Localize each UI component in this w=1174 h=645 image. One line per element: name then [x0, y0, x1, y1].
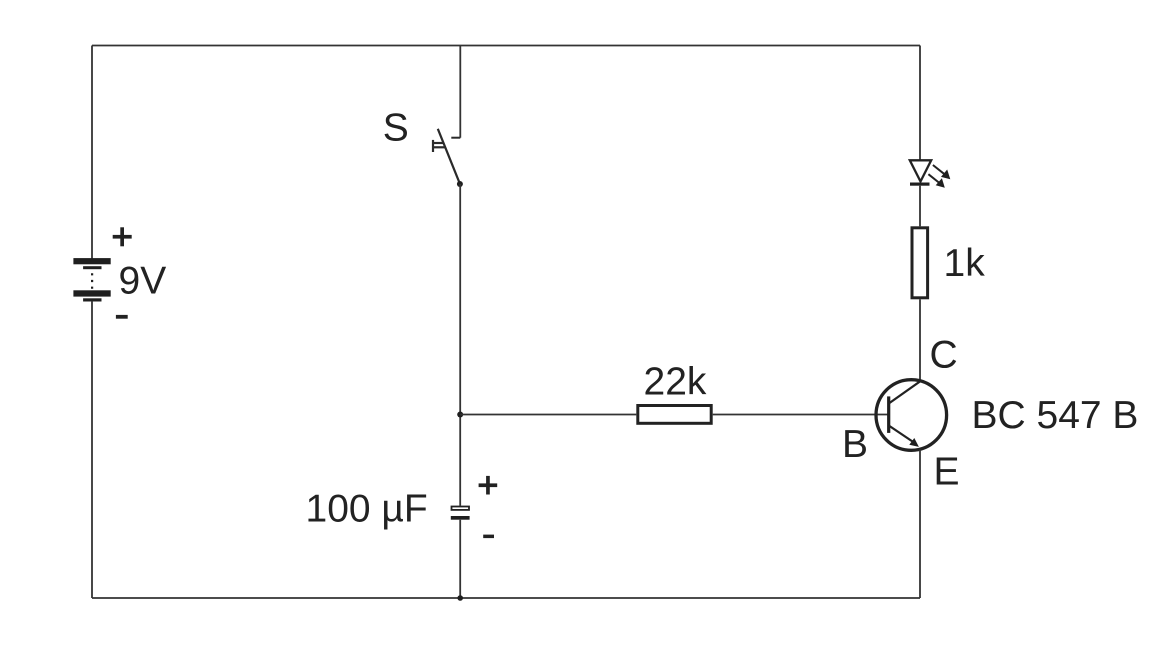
capacitor 100uF — [451, 507, 470, 520]
wire right rail upper (top to LED) — [919, 46, 921, 161]
wire left rail upper (battery +) — [91, 46, 93, 260]
junction switch pivot — [457, 181, 463, 187]
label S — [383, 107, 409, 150]
junction node base wire — [457, 412, 463, 418]
label battery minus — [116, 315, 128, 319]
wire 1k to transistor collector — [919, 299, 921, 381]
label 9V — [119, 260, 167, 303]
wire bottom rail — [92, 597, 920, 599]
wire cap to bottom rail — [459, 520, 461, 598]
svg-text:100 µF: 100 µF — [306, 488, 428, 531]
svg-text:9V: 9V — [119, 260, 167, 303]
LED — [910, 160, 951, 188]
label B base — [842, 423, 868, 466]
label 22k — [644, 361, 707, 404]
label BC 547 B — [972, 394, 1139, 437]
wire switch drop from top rail — [459, 46, 461, 138]
wire base right segment — [713, 414, 888, 416]
label E — [934, 451, 960, 494]
svg-text:1k: 1k — [944, 242, 986, 285]
label cap plus — [479, 476, 498, 495]
junction cap bottom — [457, 595, 463, 601]
battery 9V — [73, 258, 110, 301]
wire left rail lower (battery -) — [91, 301, 93, 598]
switch S — [433, 129, 460, 184]
wire base left segment — [460, 414, 636, 416]
wire top rail — [92, 45, 920, 47]
svg-text:B: B — [842, 423, 868, 466]
resistor 22k — [638, 406, 711, 424]
resistor 1k — [912, 228, 928, 298]
label 1k — [944, 242, 986, 285]
label C — [930, 334, 958, 377]
svg-text:22k: 22k — [644, 361, 707, 404]
svg-text:C: C — [930, 334, 958, 377]
svg-text:E: E — [934, 451, 960, 494]
svg-text:BC 547 B: BC 547 B — [972, 394, 1139, 437]
label battery plus — [113, 227, 132, 246]
label 100 uF — [306, 488, 428, 531]
wire middle vertical (pivot to cap) — [459, 184, 461, 506]
wire emitter to bottom rail — [919, 450, 921, 599]
svg-text:S: S — [383, 107, 409, 150]
wire LED to 1k resistor — [919, 186, 921, 227]
label cap minus — [483, 535, 494, 539]
transistor BC547B — [876, 380, 947, 451]
